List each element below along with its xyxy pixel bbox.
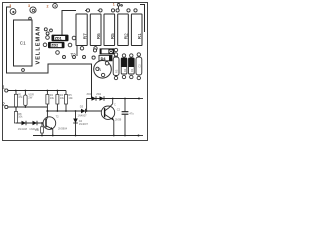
diode D1 (sch) <box>22 121 27 125</box>
svg-text:R5: R5 <box>110 33 115 39</box>
diode D4 (PCB) <box>99 55 112 60</box>
svg-text:10k: 10k <box>50 96 55 100</box>
component D3 (PCB right) <box>130 54 133 57</box>
component X1 (PCB right) <box>114 53 117 56</box>
wire W2 (base bus) <box>47 110 104 112</box>
svg-text:3: 3 <box>9 4 11 8</box>
svg-text:T1: T1 <box>97 68 101 72</box>
transistor T2 (sch) <box>43 117 56 130</box>
zener ZD2 (sch) <box>100 96 105 100</box>
pads mid row <box>63 56 66 59</box>
svg-text:3: 3 <box>28 4 30 8</box>
via pad above ZD1 <box>44 28 47 31</box>
resistor R6 (PCB) <box>90 14 101 46</box>
component C2 (PCB right) <box>137 53 140 56</box>
pads below ZD2 <box>56 51 60 55</box>
ground rail <box>33 135 139 137</box>
resistor R4 (sch) <box>56 91 58 112</box>
PCB outline (left edge, stepped bottom, right drop) <box>7 7 92 98</box>
resistor R8 (sch) <box>15 107 17 112</box>
resistor R1 (sch) <box>15 91 17 112</box>
svg-text:C1: C1 <box>20 40 26 45</box>
svg-text:C2: C2 <box>117 108 121 112</box>
svg-text:10k: 10k <box>18 115 23 119</box>
svg-text:R1: R1 <box>137 33 142 39</box>
svg-text:10k: 10k <box>68 96 73 100</box>
svg-text:10k: 10k <box>35 128 40 132</box>
resistor R2 (sch) <box>46 91 48 112</box>
svg-text:1: 1 <box>2 85 5 90</box>
zener ZD1 (sch) <box>92 96 97 100</box>
pads above resistors <box>86 9 89 12</box>
via pad on outline <box>22 69 25 72</box>
svg-text:D3: D3 <box>80 105 84 109</box>
svg-text:C2: C2 <box>137 64 141 68</box>
svg-text:1: 1 <box>113 3 115 7</box>
svg-text:2N3904: 2N3904 <box>58 126 68 130</box>
pad P1 <box>10 9 16 15</box>
svg-text:D3: D3 <box>130 68 134 72</box>
zener bus <box>87 99 139 112</box>
svg-text:ZD1: ZD1 <box>87 92 92 96</box>
svg-text:2W: 2W <box>28 95 32 99</box>
transistor T1 (PCB) <box>94 61 112 79</box>
capacitor C2 (sch) <box>124 99 126 112</box>
svg-text:R3: R3 <box>115 69 119 73</box>
component D2 (PCB right) <box>122 54 125 57</box>
wire near T2 <box>76 42 78 56</box>
diode D4 (sch vertical) <box>75 111 77 136</box>
node dots rail A <box>15 90 17 92</box>
resistor R2 (PCB) <box>118 14 129 46</box>
resistor R7 (PCB) <box>76 14 87 46</box>
wire to R7 row <box>62 11 76 36</box>
svg-text:47k: 47k <box>18 95 23 99</box>
svg-text:10k: 10k <box>60 96 65 100</box>
svg-text:D2: D2 <box>123 68 127 72</box>
rail B <box>8 106 47 108</box>
transistor T1 (sch) <box>101 106 114 119</box>
right bracket <box>140 5 145 33</box>
svg-text:R2: R2 <box>124 33 129 39</box>
svg-text:ZD2: ZD2 <box>96 92 101 96</box>
svg-text:C: C <box>114 103 116 107</box>
via pad <box>29 17 32 20</box>
zener ZD2 (PCB) <box>43 43 47 47</box>
capacitor C1 (PCB) <box>14 20 33 66</box>
svg-text:ZD2: ZD2 <box>51 44 58 48</box>
svg-text:1N4148: 1N4148 <box>18 127 28 131</box>
varistor (sch) <box>24 91 26 108</box>
svg-text:ZD1: ZD1 <box>55 36 62 40</box>
resistor R1 (PCB) <box>131 14 142 46</box>
svg-text:2N39: 2N39 <box>115 118 122 122</box>
svg-text:1N4007: 1N4007 <box>79 122 89 126</box>
pad P2 <box>30 7 36 13</box>
diode D1 (PCB) <box>100 48 115 54</box>
border frame <box>3 3 148 141</box>
svg-text:R6: R6 <box>96 33 101 39</box>
rail A (+) <box>8 91 66 95</box>
resistor R9 (sch) <box>41 122 43 124</box>
resistor R5 (sch) <box>65 104 67 111</box>
pads below R7 R6 <box>80 47 83 50</box>
diode D2 (sch) <box>33 121 38 125</box>
svg-text:2: 2 <box>47 5 49 9</box>
svg-text:VELLEMAN: VELLEMAN <box>36 26 42 65</box>
zener ZD1 (PCB) <box>46 36 50 40</box>
svg-text:1N4007: 1N4007 <box>78 114 88 118</box>
svg-text:R7: R7 <box>82 33 87 39</box>
svg-text:47u: 47u <box>129 112 134 116</box>
pad P3 <box>53 4 58 9</box>
pads near D1 D4 <box>93 49 96 52</box>
resistor R5 (PCB) <box>104 14 115 46</box>
diode D3 (sch horizontal) <box>81 109 86 113</box>
